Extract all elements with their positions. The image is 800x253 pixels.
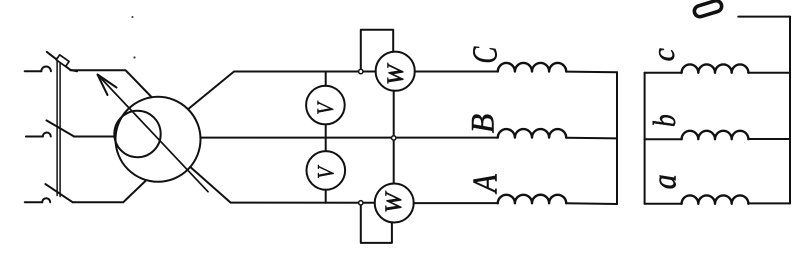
voltmeter PV2 bbox=[307, 151, 346, 190]
induction regulator rotor circle bbox=[114, 111, 160, 157]
secondary winding b coil bbox=[682, 131, 749, 139]
wire bus to coil b bbox=[645, 138, 682, 140]
primary star-point bus bbox=[616, 72, 618, 204]
voltmeter PV1 bbox=[306, 86, 345, 125]
wire: PW2 to coil A bbox=[414, 202, 498, 204]
switch S1 pole 1 blade bbox=[47, 52, 77, 71]
wattmeter PW1 current loop bbox=[361, 30, 393, 72]
svg-text:W: W bbox=[384, 62, 409, 85]
switch S1 pole 1 input wire bbox=[25, 70, 42, 72]
wattmeter potential wire vertical bbox=[393, 91, 395, 184]
wire coil a to right bus bbox=[748, 202, 790, 204]
wire mid: regulator to coil B bbox=[200, 137, 497, 139]
primary winding A coil bbox=[498, 195, 566, 204]
dust speck 1 bbox=[132, 16, 134, 18]
wire top to ammeter branch bbox=[738, 16, 790, 18]
wattmeter PW2 current loop bbox=[361, 203, 392, 243]
voltmeter branch wire top bbox=[325, 72, 327, 86]
switch S1 pole 3 input wire bbox=[25, 201, 42, 203]
switch S1 pole 2 blade bbox=[47, 120, 74, 136]
dust speck 2 bbox=[133, 56, 135, 58]
node terminal top (open circle) bbox=[359, 69, 363, 73]
wire bus to coil c bbox=[645, 72, 682, 74]
switch S1 pole 1 contact hook bbox=[41, 67, 51, 72]
wire mid-left: switch to regulator bbox=[74, 136, 115, 138]
secondary winding a coil bbox=[682, 195, 749, 203]
switch S1 handle bbox=[56, 55, 69, 67]
svg-text:V: V bbox=[313, 100, 339, 115]
clipped letter O (page text fragment) bbox=[693, 0, 723, 18]
svg-text:C: C bbox=[466, 46, 505, 63]
wire bottom-right: regulator to node bbox=[190, 167, 374, 203]
wire coil c to right bus bbox=[748, 72, 790, 74]
voltmeter branch wire middle bbox=[325, 124, 327, 151]
svg-text:b: b bbox=[647, 114, 682, 127]
svg-text:W: W bbox=[382, 190, 407, 213]
switch S1 linkage bar (double line) bbox=[56, 58, 58, 196]
wire coil b to right bus bbox=[748, 138, 790, 140]
svg-text:c: c bbox=[645, 48, 681, 62]
wire bottom-left: switch to regulator bbox=[73, 181, 146, 202]
wire top-left: switch to regulator bbox=[70, 70, 151, 97]
wire coil A to star point bbox=[566, 202, 617, 205]
wire coil C to star point bbox=[566, 71, 617, 74]
switch S1 pole 3 blade bbox=[45, 184, 72, 202]
primary winding B coil bbox=[498, 129, 566, 138]
secondary winding c coil bbox=[682, 64, 749, 72]
secondary short-circuit bus (right) bbox=[789, 17, 791, 204]
svg-text:a: a bbox=[645, 174, 683, 189]
wattmeter PW1 bbox=[376, 52, 415, 91]
node terminal middle (open circle) bbox=[392, 136, 396, 140]
primary winding C coil bbox=[498, 63, 566, 72]
induction regulator stator circle bbox=[116, 97, 201, 182]
induction regulator adjustment arrow shaft bbox=[98, 75, 209, 192]
wire top-right: regulator to node bbox=[188, 72, 375, 110]
voltmeter branch wire bottom bbox=[325, 190, 327, 203]
svg-text:B: B bbox=[465, 114, 502, 134]
wattmeter PW2 bbox=[375, 184, 414, 223]
svg-text:A: A bbox=[466, 174, 505, 194]
switch S1 pole 2 contact hook bbox=[43, 133, 51, 137]
svg-text:V: V bbox=[313, 164, 339, 179]
wire coil B to star point bbox=[566, 137, 617, 140]
wire bus to coil a bbox=[645, 203, 682, 205]
wire: PW1 to coil C bbox=[415, 71, 498, 73]
switch S1 pole 2 input wire bbox=[26, 136, 43, 138]
switch S1 pole 3 contact hook bbox=[42, 198, 50, 202]
node terminal bottom (open circle) bbox=[359, 201, 363, 205]
induction regulator arrowhead bbox=[98, 75, 117, 96]
secondary star bus (left) bbox=[644, 73, 646, 204]
